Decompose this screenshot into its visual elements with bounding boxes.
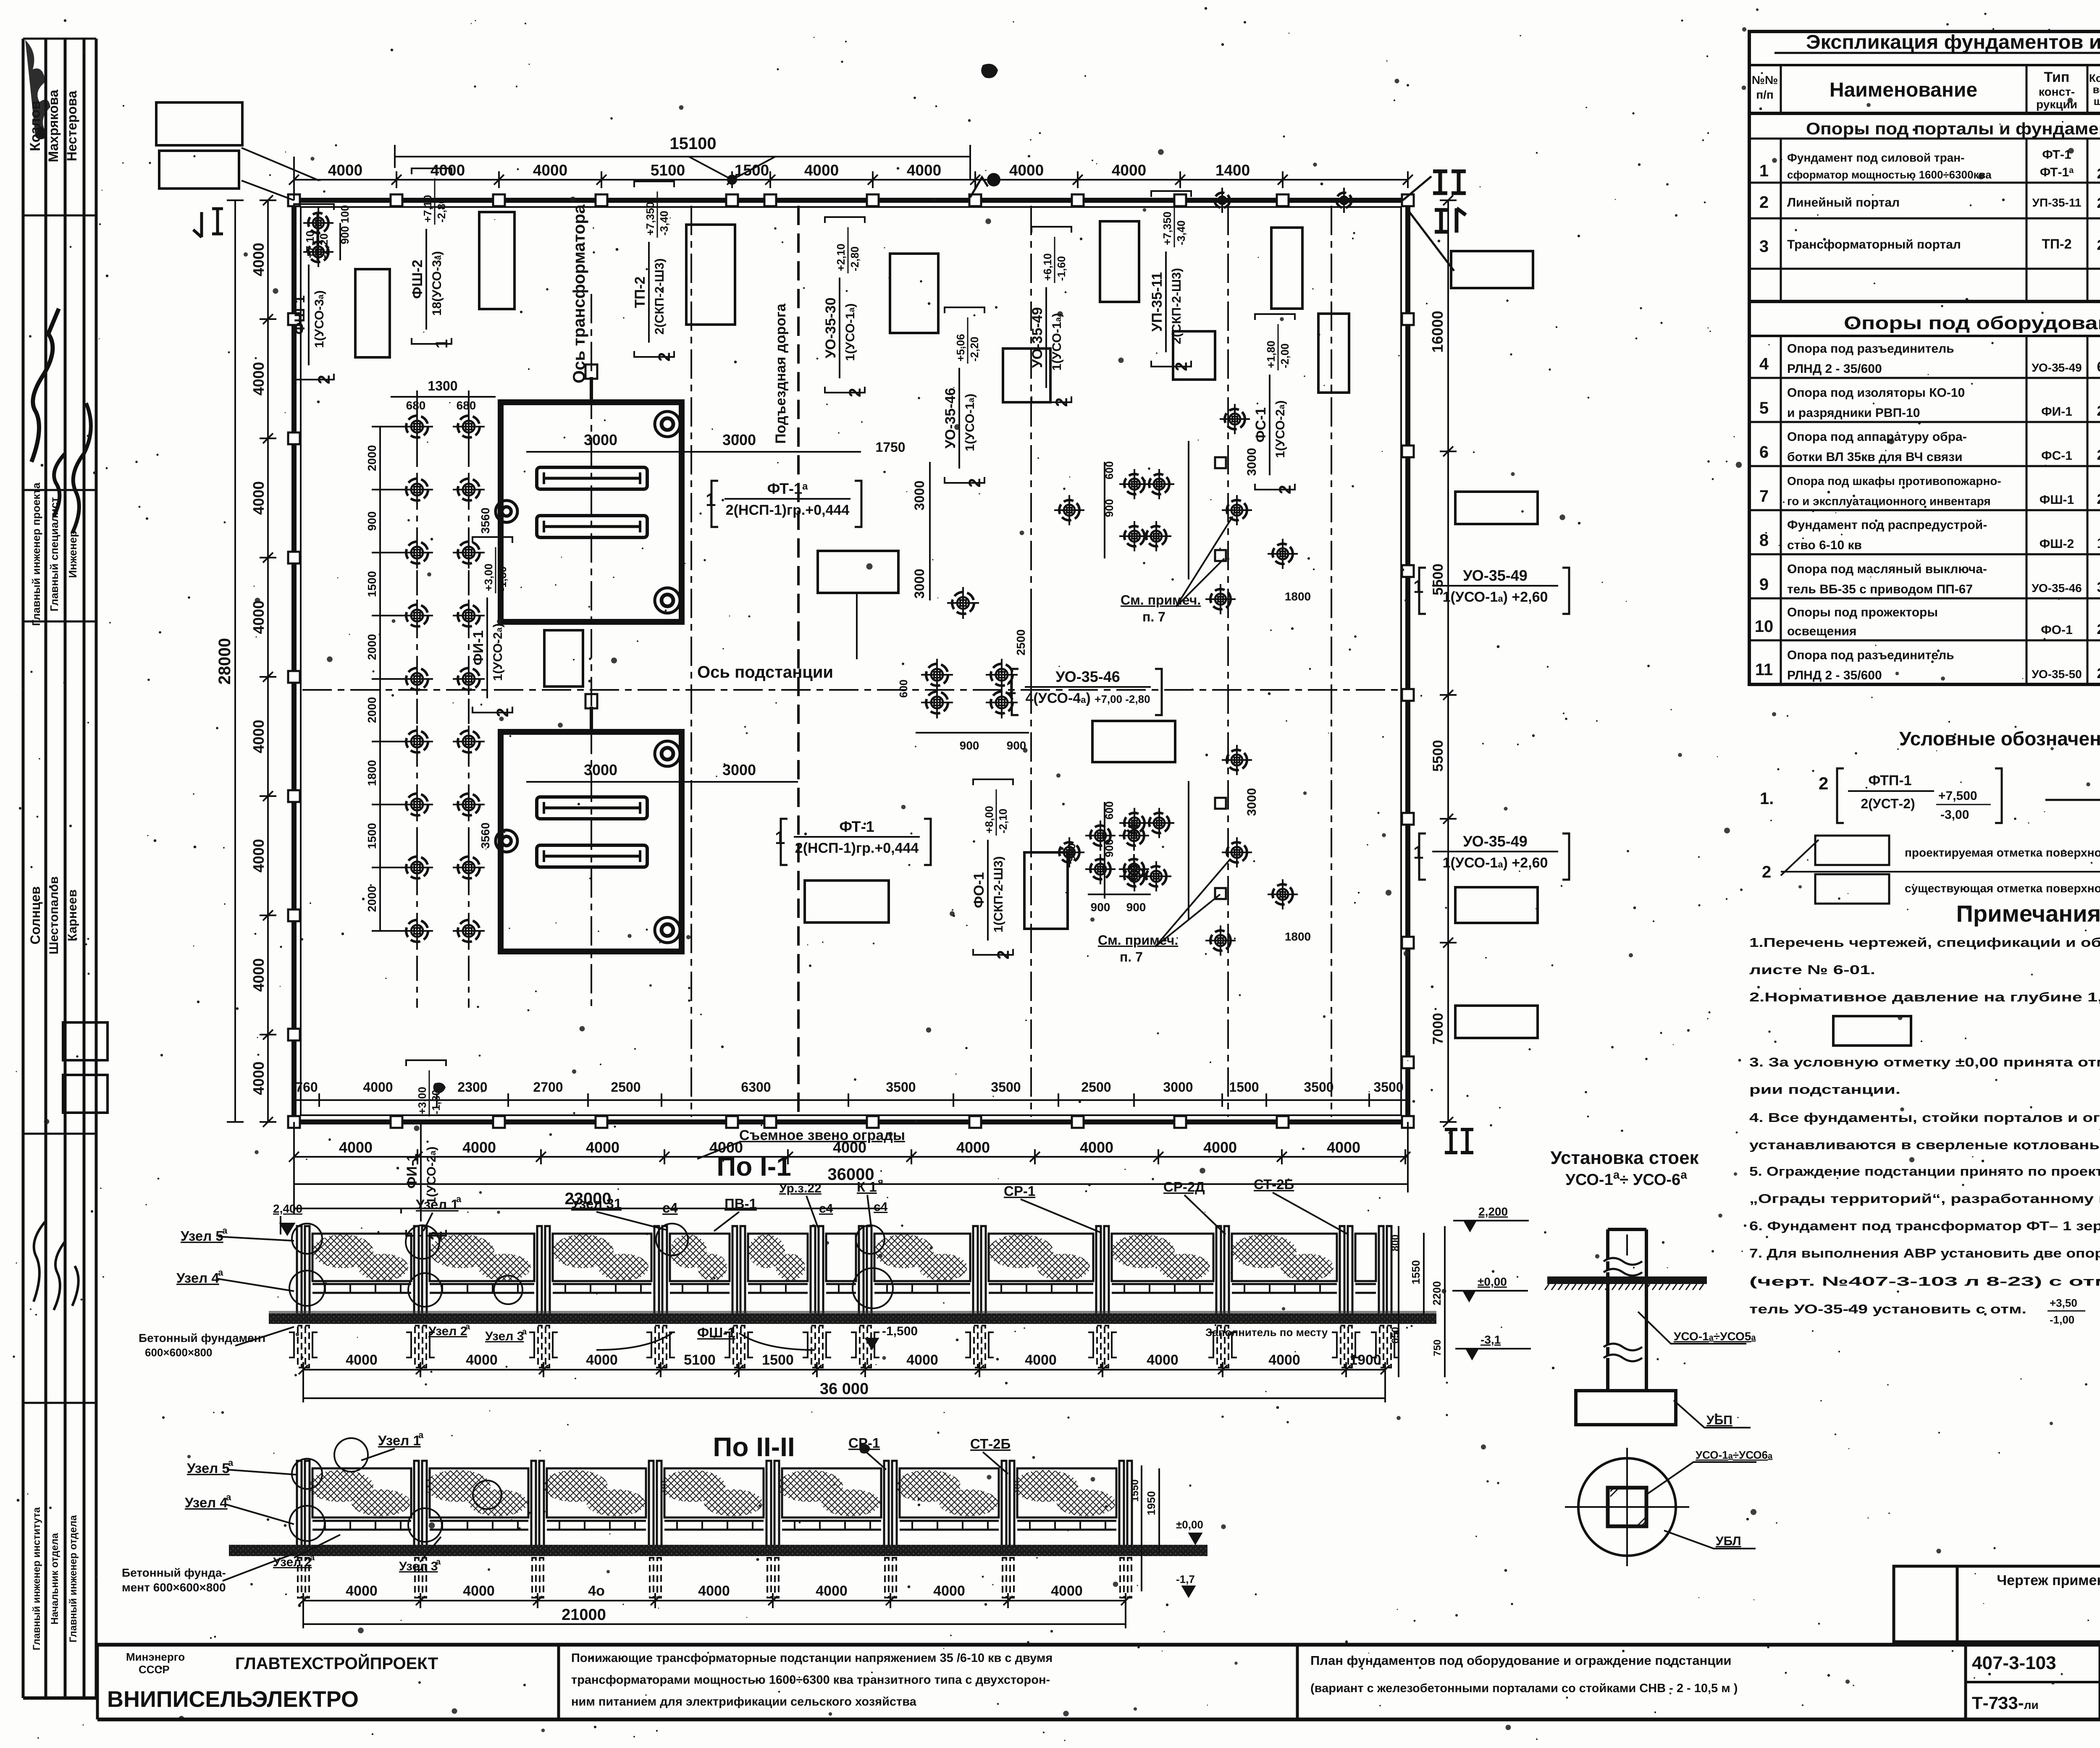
svg-text:Примечания: Примечания: [1956, 900, 2100, 927]
svg-text:1800: 1800: [1285, 590, 1311, 603]
svg-text:п. 7: п. 7: [1120, 949, 1143, 964]
label box at 1916,2097: [805, 881, 889, 922]
svg-text:По I-1: По I-1: [717, 1151, 791, 1182]
svg-text:4000: 4000: [250, 958, 267, 992]
leader line top-left: [241, 148, 319, 200]
svg-text:900: 900: [365, 511, 378, 531]
left strip horizontal separators: [23, 38, 96, 40]
axis: road vertical dash line: [797, 206, 800, 1117]
svg-text:СР-2Д: СР-2Д: [1163, 1179, 1205, 1195]
svg-text:ФТ-1: ФТ-1: [839, 818, 874, 835]
svg-text:+7,500: +7,500: [1938, 789, 1977, 803]
svg-text:-1,7: -1,7: [1176, 1573, 1195, 1586]
svg-text:4000: 4000: [698, 1583, 730, 1599]
svg-text:4000: 4000: [328, 162, 362, 179]
svg-text:1800: 1800: [365, 760, 378, 786]
section I-I posts: [289, 1226, 1399, 1368]
foundation symbol (993,1166): [401, 474, 433, 506]
svg-text:2700: 2700: [533, 1080, 563, 1095]
foundation symbol (1116,1166): [453, 474, 485, 506]
svg-text:4000: 4000: [1147, 1352, 1179, 1368]
svg-text:1: 1: [2097, 535, 2100, 551]
svg-text:Фундамент под силовой тран-: Фундамент под силовой тран-: [1787, 151, 1965, 164]
label box at 2793,789: [1173, 331, 1215, 380]
label box at 3455,598: [1451, 251, 1533, 288]
svg-text:600×600×800: 600×600×800: [145, 1346, 213, 1359]
table outer frame: [1749, 31, 2100, 684]
foundation symbol (2753,2087): [1141, 861, 1171, 891]
svg-text:ФШ-2: ФШ-2: [409, 259, 425, 299]
svg-text:2: 2: [2097, 491, 2100, 507]
svg-text:Кол-: Кол-: [2089, 72, 2100, 84]
foundation symbol (1116,1916): [453, 789, 485, 820]
svg-text:Главный инженер института: Главный инженер института: [31, 1507, 42, 1650]
foundation symbol (1116,1466): [453, 600, 485, 632]
svg-text:2000: 2000: [365, 634, 378, 660]
svg-text:+1,80: +1,80: [1265, 341, 1277, 368]
svg-text:36 000: 36 000: [820, 1380, 869, 1398]
svg-text:УБЛ: УБЛ: [1716, 1534, 1741, 1548]
svg-text:рии подстанции.: рии подстанции.: [1749, 1082, 1900, 1097]
svg-text:-3,00: -3,00: [1940, 808, 1969, 822]
svg-text:ФО-1: ФО-1: [971, 872, 987, 908]
svg-text:-2,00: -2,00: [1278, 343, 1291, 368]
svg-text:+2,10: +2,10: [835, 244, 847, 271]
svg-text:2: 2: [1819, 773, 1828, 793]
legend formula: [1819, 768, 2002, 823]
svg-text:21000: 21000: [562, 1606, 606, 1624]
svg-text:3560: 3560: [479, 823, 492, 849]
svg-text:2: 2: [2097, 195, 2100, 211]
чертеж применен box: [1894, 1566, 2100, 1642]
svg-text:800: 800: [1390, 1234, 1401, 1251]
svg-text:4000: 4000: [1025, 1352, 1057, 1368]
formula label УП-35-11: [1149, 191, 1191, 371]
svg-text:3500: 3500: [1304, 1080, 1333, 1095]
svg-text:Съемное звено ограды: Съемное звено ограды: [739, 1127, 905, 1143]
section II-II hatch blobs: [308, 1470, 373, 1502]
svg-text:ФТ-1а: ФТ-1а: [2040, 165, 2074, 179]
svg-text:2: 2: [2097, 237, 2100, 253]
svg-text:4000: 4000: [250, 839, 267, 873]
svg-text:15100: 15100: [669, 134, 716, 153]
label box at 2601,1717: [1092, 721, 1175, 762]
svg-text:Ось трансформатора: Ось трансформатора: [570, 204, 588, 383]
section mark I left top: [193, 209, 223, 237]
foundation symbol (2385,1607): [986, 659, 1018, 691]
svg-text:УП-35-11: УП-35-11: [2032, 196, 2082, 209]
svg-text:3000: 3000: [722, 431, 756, 448]
svg-text:-3,40: -3,40: [658, 211, 670, 236]
svg-text:а: а: [436, 1557, 441, 1567]
svg-text:4000: 4000: [463, 1583, 495, 1599]
svg-text:4000: 4000: [933, 1583, 965, 1599]
svg-text:2(НСП-1)гр.+0,444: 2(НСП-1)гр.+0,444: [795, 840, 919, 856]
svg-text:го и эксплуатационного инвента: го и эксплуатационного инвентаря: [1787, 495, 1991, 508]
svg-text:1500: 1500: [1229, 1080, 1259, 1095]
svg-text:УО-35-50: УО-35-50: [2032, 668, 2082, 681]
title block verticals: [557, 1645, 560, 1719]
svg-text:ТП-2: ТП-2: [2042, 236, 2072, 252]
svg-text:680: 680: [457, 399, 476, 412]
foundation symbol (2546,1215): [1054, 495, 1084, 525]
section I-I ground band: [269, 1313, 1436, 1324]
svg-text:-1,500: -1,500: [882, 1324, 918, 1338]
svg-text:4000: 4000: [956, 1139, 990, 1156]
svg-text:3000: 3000: [722, 761, 756, 778]
plan bottom dim row inner: [294, 1093, 1408, 1107]
svg-text:Карнеев: Карнеев: [66, 889, 79, 941]
svg-text:1300: 1300: [428, 378, 457, 393]
svg-text:2: 2: [2097, 166, 2100, 182]
svg-text:с4: с4: [819, 1202, 833, 1216]
svg-text:-2,10: -2,10: [997, 809, 1009, 833]
svg-text:ПВ-1: ПВ-1: [724, 1196, 757, 1211]
foundation symbol (993,1617): [401, 663, 433, 695]
svg-text:-1,00: -1,00: [2050, 1313, 2074, 1326]
detail plan circle: [1578, 1458, 1676, 1556]
svg-text:СР-1: СР-1: [1004, 1183, 1035, 1199]
section II-II node circles: [292, 1459, 322, 1489]
svg-text:Трансформаторный портал: Трансформаторный портал: [1787, 238, 1961, 252]
formula label ФШ-2: [409, 168, 451, 349]
svg-text:100: 100: [339, 205, 351, 223]
svg-text:900: 900: [1103, 499, 1116, 517]
transformer dim 3000 3000: [526, 451, 861, 453]
fence-line foundation symbols top right: [1210, 188, 1235, 213]
svg-text:3000: 3000: [1163, 1080, 1193, 1095]
left strip signatures block 2: [34, 1222, 45, 1302]
svg-text:2: 2: [2097, 447, 2100, 463]
svg-text:2000: 2000: [365, 445, 378, 471]
circle above center cluster: [947, 587, 979, 619]
foundation symbol (1116,1316): [453, 537, 485, 569]
svg-text:2000: 2000: [365, 886, 378, 912]
svg-text:2500: 2500: [611, 1080, 640, 1095]
svg-text:Условные обозначения: Условные обозначения: [1899, 728, 2100, 750]
formula УО-35-46 horizontal: [1006, 668, 1162, 715]
svg-text:Подъездная дорога: Подъездная дорога: [773, 303, 789, 444]
svg-text:2000: 2000: [365, 697, 378, 723]
svg-text:1.: 1.: [1760, 789, 1774, 808]
svg-text:900: 900: [960, 739, 979, 752]
label box at 1634,535: [686, 225, 735, 325]
section marks II top right: [1433, 171, 1466, 233]
svg-text:1400: 1400: [1215, 162, 1250, 179]
svg-text:900: 900: [339, 226, 351, 244]
svg-text:Установка стоек: Установка стоек: [1550, 1148, 1699, 1168]
top-left foundation pair: [303, 208, 333, 238]
svg-text:Заполнитель по месту: Заполнитель по месту: [1205, 1326, 1328, 1339]
svg-text:РЛНД 2 - 35/600: РЛНД 2 - 35/600: [1787, 362, 1882, 376]
svg-text:3. За условную отметку ±0: 3. За условную отметку ±0,00 принята отм…: [1749, 1055, 2100, 1069]
transformer right dim 3000/3000 vertical: [929, 462, 931, 600]
plan top dimension line 15100: [289, 145, 1413, 200]
svg-text:УО-35-46: УО-35-46: [942, 388, 958, 448]
svg-text:Наименование: Наименование: [1830, 79, 1977, 101]
plan bottom dim row 4000s: [289, 1122, 1410, 1213]
transformer 2 corner anchors: [655, 741, 680, 766]
svg-text:Опора под аппаратуру обра-: Опора под аппаратуру обра-: [1787, 430, 1967, 444]
section II-II dims: [299, 1593, 1130, 1628]
label box at 2619,527: [1100, 221, 1139, 302]
svg-text:Узел 5: Узел 5: [181, 1228, 223, 1244]
svg-text:с4: с4: [874, 1200, 888, 1214]
svg-text:2(СКП-2-Ш3): 2(СКП-2-Ш3): [1170, 268, 1184, 344]
svg-text:4000: 4000: [816, 1583, 848, 1599]
foundation symbol (2760,1960): [1144, 808, 1174, 838]
svg-text:а: а: [310, 1553, 315, 1562]
section I-I fence panels: [312, 1234, 1376, 1293]
foundation symbol (2701,2087): [1119, 861, 1150, 891]
axis: transformer vertical: [591, 294, 592, 1008]
formula label ФО-1 bottom: [971, 779, 1013, 959]
svg-text:Бетонный фунда-: Бетонный фунда-: [122, 1566, 226, 1579]
svg-text:-3,40: -3,40: [1175, 220, 1187, 245]
svg-text:7000: 7000: [1430, 1013, 1446, 1045]
label box at 3465,2395: [1455, 1006, 1538, 1038]
transformer 1 left anchor: [496, 501, 517, 522]
svg-text:во,: во,: [2093, 83, 2100, 96]
svg-text:мент 600×600×800: мент 600×600×800: [122, 1581, 226, 1594]
svg-text:Узел 5: Узел 5: [187, 1460, 230, 1476]
svg-text:Опора под изоляторы КО-10: Опора под изоляторы КО-10: [1787, 386, 1965, 400]
section I-I node callout circles: [292, 1224, 322, 1254]
label box at 2388,830: [1003, 349, 1050, 402]
svg-text:Опора под разъединитель: Опора под разъединитель: [1787, 342, 1954, 356]
svg-text:а: а: [465, 1322, 470, 1331]
svg-text:Нестерова: Нестерова: [64, 91, 79, 161]
foundation symbol (1116,1617): [453, 663, 485, 695]
svg-text:2(СКП-2-Ш3): 2(СКП-2-Ш3): [653, 258, 667, 335]
formula label ФИ-1 mid: [470, 537, 512, 717]
svg-text:3000: 3000: [912, 569, 927, 598]
label box at 846,641: [355, 269, 390, 357]
svg-text:5. Ограждение подстанции: 5. Ограждение подстанции принято по прое…: [1749, 1164, 2100, 1179]
svg-text:„Ограды территорий“, разраб: „Ограды территорий“, разработанному инст…: [1749, 1191, 2100, 1206]
svg-text:УСО-1а÷УСО6а: УСО-1а÷УСО6а: [1696, 1449, 1773, 1461]
svg-text:4000: 4000: [250, 362, 267, 396]
section I-I right side dims: [1399, 1226, 1445, 1377]
svg-text:3500: 3500: [991, 1080, 1021, 1095]
table vertical lines: [1781, 65, 2100, 684]
svg-text:600: 600: [897, 679, 910, 697]
svg-text:я: я: [877, 1177, 883, 1187]
svg-text:4000: 4000: [363, 1080, 393, 1095]
plan: fence posts: [288, 194, 1414, 1128]
svg-text:УО-35-46: УО-35-46: [2032, 582, 2082, 595]
svg-text:3560: 3560: [479, 508, 492, 534]
svg-text:-2,80: -2,80: [848, 246, 861, 271]
svg-text:тель ВБ-35 с приводом ПП-6: тель ВБ-35 с приводом ПП-67: [1787, 582, 1973, 596]
transformer 2 stub: [590, 707, 593, 732]
svg-text:-1,60: -1,60: [1055, 256, 1068, 281]
svg-text:3: 3: [2097, 579, 2100, 595]
svg-text:УСО-1а÷ УСО-6а: УСО-1а÷ УСО-6а: [1565, 1168, 1687, 1189]
svg-text:Опоры под порталы и фундам: Опоры под порталы и фундаменты под транс…: [1806, 120, 2100, 138]
foundation symbol (2231,1673): [921, 687, 953, 718]
svg-text:Начальник отдела: Начальник отдела: [49, 1533, 60, 1625]
sheet frame: left signature strip vertical rules: [22, 39, 25, 1698]
foundation symbol (2231,1607): [921, 659, 953, 691]
svg-text:650: 650: [1390, 1327, 1401, 1344]
svg-text:с4: с4: [662, 1200, 678, 1216]
note 2 empty box: [1833, 1016, 1911, 1046]
svg-text:4000: 4000: [430, 162, 465, 179]
solid node dot on top fence: [987, 173, 1000, 186]
svg-text:407-3-103: 407-3-103: [1972, 1653, 2056, 1673]
plan: substation fence outline (double line): [294, 200, 1408, 1122]
formula label УО-35-46 mid: [942, 307, 984, 487]
svg-text:6. Фундамент под трансфо: 6. Фундамент под трансформатор ФТ– 1 зер…: [1749, 1219, 2100, 1233]
svg-text:4: 4: [1759, 355, 1769, 373]
foundation symbol (2620,2070): [1085, 854, 1116, 884]
left strip names (rotated): [27, 89, 91, 1650]
diagonal leaders top right: [1403, 176, 1454, 271]
svg-text:По II-II: По II-II: [713, 1432, 795, 1462]
svg-text:УП-35-11: УП-35-11: [1149, 272, 1165, 332]
svg-text:ФТ-1а: ФТ-1а: [767, 480, 808, 497]
svg-text:Опоры под оборудование: Опоры под оборудование: [1844, 313, 2100, 333]
column break marks: [1604, 1258, 1642, 1276]
label box at 3465,2113: [1455, 887, 1538, 923]
svg-text:2500: 2500: [1081, 1080, 1111, 1095]
svg-text:4(УСО-4а) +7,00 -2,80: 4(УСО-4а) +7,00 -2,80: [1025, 690, 1150, 706]
foundation symbol (993,2217): [401, 915, 433, 947]
svg-text:ФШ-1: ФШ-1: [697, 1325, 735, 1340]
svg-text:ФИ-1: ФИ-1: [2041, 405, 2072, 419]
svg-text:4000: 4000: [586, 1352, 618, 1368]
table horizontal lines: [1749, 64, 2100, 66]
foundation symbol (2620,1990): [1085, 820, 1116, 851]
svg-text:а: а: [418, 1430, 424, 1440]
svg-text:Узел 1: Узел 1: [416, 1197, 459, 1212]
svg-text:Главный инженер отдела: Главный инженер отдела: [68, 1515, 79, 1643]
svg-text:и разрядники РВП-10: и разрядники РВП-10: [1787, 406, 1920, 420]
svg-text:тель УО-35-49 установить: тель УО-35-49 установить с отм.: [1749, 1302, 2026, 1316]
scan smudges top-left corner: [25, 40, 998, 1454]
svg-text:Тип: Тип: [2044, 69, 2070, 85]
svg-text:3000: 3000: [584, 431, 617, 448]
foundation symbol (993,1766): [401, 726, 433, 757]
section marks II bottom right: [1445, 1130, 1473, 1153]
svg-text:3000: 3000: [1245, 448, 1259, 476]
svg-text:освещения: освещения: [1787, 624, 1856, 638]
svg-text:ботки ВЛ 35кв для ВЧ связи: ботки ВЛ 35кв для ВЧ связи: [1787, 450, 1963, 464]
svg-text:11: 11: [1755, 660, 1773, 679]
detail callout УСО-1а÷УСО5а: [1638, 1312, 1746, 1344]
foundation symbol (2701,1153): [1119, 469, 1150, 499]
svg-text:7. Для выполнения АВР: 7. Для выполнения АВР установить две опо…: [1749, 1246, 2100, 1261]
svg-text:4000: 4000: [1112, 162, 1146, 179]
svg-text:4000: 4000: [339, 1139, 373, 1156]
svg-text:±0,00: ±0,00: [1176, 1518, 1203, 1531]
svg-text:680: 680: [406, 399, 426, 412]
svg-text:СССР: СССР: [139, 1663, 170, 1676]
svg-text:УО-35-49: УО-35-49: [2032, 361, 2082, 374]
svg-text:4000: 4000: [533, 162, 567, 179]
svg-text:4000: 4000: [1327, 1139, 1360, 1156]
foundation symbol (993,2066): [401, 852, 433, 883]
svg-text:2: 2: [2097, 403, 2100, 419]
svg-text:±0,00: ±0,00: [1478, 1275, 1507, 1288]
svg-text:1500: 1500: [365, 571, 378, 597]
svg-text:Узел 2: Узел 2: [273, 1555, 312, 1569]
svg-text:УО-35-30: УО-35-30: [823, 297, 839, 358]
svg-text:2(УСТ-2): 2(УСТ-2): [1861, 796, 1915, 811]
svg-text:+5,06: +5,06: [954, 334, 967, 362]
svg-text:1900: 1900: [1349, 1352, 1381, 1368]
svg-text:рукции: рукции: [2036, 98, 2077, 111]
transformer foundation rectangle 1: [501, 402, 682, 622]
axis: vertical dash-dot lines: [690, 206, 692, 1117]
detail callout УБП: [1674, 1400, 1751, 1428]
svg-text:900: 900: [1091, 901, 1110, 914]
foundation symbol (1116,1766): [453, 726, 485, 757]
transformer 2 rail beams: [537, 797, 647, 819]
transformer foundation rectangle 2: [501, 732, 682, 951]
foundation symbol (2546,2030): [1054, 837, 1084, 867]
label box at 1141,505: [479, 212, 514, 309]
svg-text:РЛНД 2 - 35/600: РЛНД 2 - 35/600: [1787, 668, 1882, 682]
svg-text:Фундамент под распредустрой-: Фундамент под распредустрой-: [1787, 518, 1987, 532]
svg-text:2200: 2200: [1431, 1281, 1443, 1305]
svg-text:существующая отметка поверхн: существующая отметка поверхности земли: [1905, 882, 2100, 895]
foundation symbol (2945,1810): [1222, 745, 1252, 775]
svg-text:Узел 4: Узел 4: [176, 1270, 219, 1286]
svg-text:ФИ-1: ФИ-1: [470, 630, 486, 666]
transformer 1 stub: [590, 377, 593, 402]
svg-text:18(УСО-3а): 18(УСО-3а): [430, 251, 444, 316]
plan top dimension chain row: [294, 179, 1408, 181]
svg-text:4000: 4000: [586, 1139, 619, 1156]
svg-text:6300: 6300: [741, 1080, 771, 1095]
svg-text:сформатор мощностью 1600÷6300к: сформатор мощностью 1600÷6300ква: [1787, 168, 1992, 181]
section I-I dimension rows: [299, 1362, 1390, 1402]
transformer 1 corner anchors: [655, 411, 680, 437]
svg-text:(черт. №407-3-103 л 8-23) с: (черт. №407-3-103 л 8-23) с отм.: [1749, 1274, 2100, 1289]
foundation symbol (2385,1673): [986, 687, 1018, 718]
svg-text:-1,80: -1,80: [496, 566, 509, 591]
svg-text:СР-1: СР-1: [848, 1435, 880, 1451]
svg-text:а: а: [456, 1194, 462, 1204]
foundation symbol (993,1316): [401, 537, 433, 569]
foundation symbol (1116,2217): [453, 915, 485, 947]
svg-text:Минэнерго: Минэнерго: [126, 1651, 185, 1663]
stem line under center box: [856, 593, 858, 659]
foundation symbol (2760,1153): [1144, 469, 1174, 499]
formula label ФШ-1 top-left: [292, 204, 334, 384]
svg-text:-2,80: -2,80: [435, 198, 448, 223]
svg-text:4000: 4000: [250, 481, 267, 515]
svg-text:трансформаторами мощностью: трансформаторами мощностью 1600÷6300 ква…: [571, 1673, 1050, 1687]
svg-text:+3,00: +3,00: [482, 563, 495, 591]
svg-text:6: 6: [2097, 359, 2100, 375]
svg-text:+7,10: +7,10: [421, 195, 434, 223]
svg-text:План фундаментов под об: План фундаментов под оборудование и огра…: [1310, 1653, 1731, 1668]
label box at 372,244: [156, 102, 242, 145]
section II-II right dims: [1142, 1465, 1159, 1591]
svg-text:проектируемая отметка поверх: проектируемая отметка поверхности земли: [1905, 846, 2100, 859]
svg-text:а: а: [222, 1225, 228, 1236]
svg-text:2500: 2500: [1014, 629, 1027, 655]
svg-text:Узел 31: Узел 31: [571, 1196, 622, 1211]
label box at 3139,747: [1318, 314, 1349, 393]
svg-text:+7,10: +7,10: [304, 231, 316, 258]
formula label ФС-1: [1253, 314, 1295, 494]
foundation symbol (2906,1427): [1205, 584, 1236, 614]
foundation symbol (2700,1990): [1119, 820, 1149, 851]
